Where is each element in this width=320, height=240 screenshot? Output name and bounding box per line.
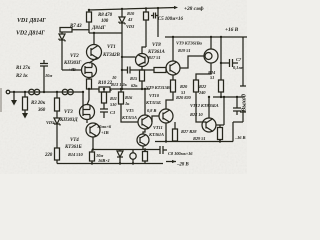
node top rail R9	[88, 9, 90, 11]
transistor VT6b	[137, 134, 149, 146]
transistor VT8	[136, 54, 149, 67]
wire neg rail right	[155, 141, 233, 143]
capacitor C9	[236, 97, 238, 108]
resistor R24	[219, 80, 224, 92]
wire x221	[220, 37, 222, 80]
transistor VT7 out	[159, 109, 173, 123]
resistor R14	[91, 150, 93, 153]
resistor R27	[173, 129, 178, 141]
zener VD3	[121, 9, 123, 17]
transistor VT9	[166, 61, 180, 75]
wire output rail	[213, 96, 243, 98]
edge shadow	[0, 88, 2, 112]
zener VD3 line down	[121, 33, 123, 70]
resistor R5	[55, 148, 60, 160]
wire base VT8	[122, 56, 136, 58]
zener VD1	[59, 34, 65, 40]
transistor VT10	[204, 49, 218, 63]
resistor R8	[88, 10, 90, 12]
transistor VT3 fet	[80, 105, 95, 120]
resistor R11 stack	[103, 88, 105, 90]
resistor R18 oval	[154, 68, 166, 73]
resistor R28	[218, 128, 223, 140]
wire gate VT2	[62, 69, 82, 71]
ground input	[13, 91, 15, 93]
transistor VT5	[138, 115, 152, 129]
diode VD6	[119, 150, 121, 152]
wire top rail +28V	[88, 8, 176, 11]
transistor VT4	[86, 119, 88, 123]
capacitor C2	[62, 89, 68, 95]
resistor R12 horizontal	[99, 87, 110, 92]
wire node y33	[89, 32, 122, 34]
wire input	[10, 91, 84, 93]
wire neg mid y149.5	[93, 149, 160, 151]
capacitor C4	[122, 69, 127, 71]
terminal -28V	[166, 161, 176, 163]
input terminal	[6, 90, 10, 94]
resistor R9 top	[145, 8, 147, 12]
capacitor C5	[157, 8, 159, 37]
resistor R10	[88, 77, 90, 79]
transistor VT1	[87, 45, 102, 60]
wire +16 rail	[165, 36, 247, 38]
resistor R22	[194, 80, 199, 92]
transistor VT12 out	[202, 118, 216, 132]
node top rail VD3	[121, 8, 123, 10]
capacitor C8	[160, 146, 163, 154]
wire emitter VT4	[92, 137, 94, 150]
capacitor C3	[100, 109, 108, 112]
trimmer R15	[130, 153, 136, 159]
resistor R15b	[143, 152, 148, 162]
resistor R21	[172, 75, 174, 80]
capacitor C7	[221, 62, 229, 64]
resistor R3	[24, 91, 26, 93]
capacitor C1	[29, 89, 35, 95]
load speaker	[242, 37, 244, 86]
node top rail C5	[145, 7, 147, 9]
zener VD2	[54, 118, 60, 124]
resistor R4	[56, 91, 58, 93]
resistor R16	[120, 88, 122, 90]
wire mid rail y89	[90, 88, 150, 90]
resistor under VT8	[141, 67, 143, 71]
wire bottom rail	[57, 163, 163, 165]
capacitor C2a divider	[43, 60, 45, 64]
transistor VT2 fet	[89, 58, 97, 63]
